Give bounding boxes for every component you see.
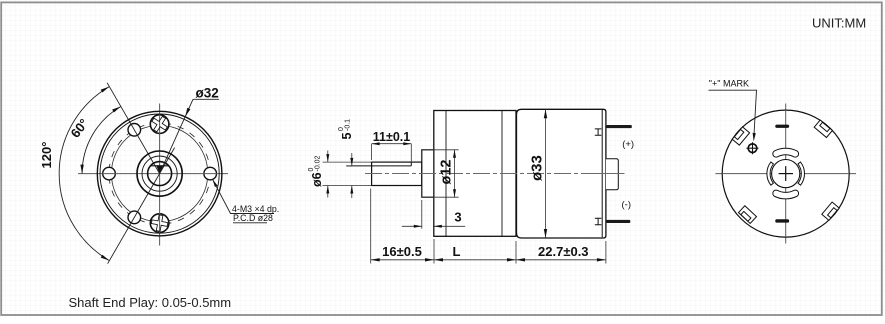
svg-text:ø6: ø6 xyxy=(310,172,324,187)
output shaft (side view, dia 6) xyxy=(372,162,422,185)
svg-text:22.7±0.3: 22.7±0.3 xyxy=(538,244,589,259)
output hub middle circle xyxy=(142,156,177,191)
shaft boss (dia 12) xyxy=(422,150,434,197)
output shaft circle (dia 6) xyxy=(148,162,172,186)
leader line for dia 32 xyxy=(193,98,219,100)
dimension arc 60 deg xyxy=(82,107,121,174)
extension lines for dia 6 xyxy=(323,161,372,163)
svg-text:5: 5 xyxy=(340,133,354,140)
extension lines for dia 12 xyxy=(422,149,459,151)
bottom phillips screw recess xyxy=(150,214,169,233)
gearbox cover seam line xyxy=(445,111,447,237)
radial line through upper-left hole (120 deg) xyxy=(107,83,160,174)
motor can rear circle (dia 33) xyxy=(722,110,849,237)
shaft flat edge line xyxy=(346,165,411,167)
rear view vertical centerline inside xyxy=(785,110,787,237)
dimension 5 0/-0.1 xyxy=(351,153,353,166)
extension lines for bottom dimension chain xyxy=(370,189,372,264)
mounting hole M3 left xyxy=(103,167,116,180)
gearbox front view: horizontal centerline xyxy=(78,173,228,175)
motor assembly centerline xyxy=(365,173,623,175)
motor rear view: horizontal centerline xyxy=(715,173,856,175)
bearing boss arc right xyxy=(798,162,805,185)
can crimp tab upper-right xyxy=(814,120,832,137)
svg-text:UNIT:MM: UNIT:MM xyxy=(812,16,866,31)
shaft flat end step xyxy=(410,162,412,166)
rear bearing circle xyxy=(772,160,800,188)
svg-text:(-): (-) xyxy=(622,199,632,210)
extension line for flat height 5 xyxy=(346,165,352,167)
plus polarity mark xyxy=(748,144,757,153)
svg-text:ø33: ø33 xyxy=(529,155,546,181)
gearbox housing outer circle (dia 32) xyxy=(97,111,222,236)
top phillips screw recess xyxy=(149,113,171,135)
can crimp tab upper-left xyxy=(732,127,749,145)
svg-text:ø12: ø12 xyxy=(439,160,455,185)
mounting hole M3 right xyxy=(204,167,217,180)
gearbox housing inner rim circle xyxy=(100,114,219,233)
svg-text:-0.02: -0.02 xyxy=(314,155,321,171)
bottom phillips screw circle xyxy=(150,214,169,233)
bolt circle P.C.D 28 (dashed) xyxy=(109,123,210,224)
gearbox front view: vertical centerline xyxy=(159,104,161,246)
dimension dia 33 xyxy=(545,109,547,238)
vent slot curved top xyxy=(776,152,795,154)
extension lines for 11 xyxy=(371,144,373,160)
vent slot curved bottom xyxy=(776,193,795,195)
shaft flat chord xyxy=(151,165,169,167)
terminal base bracket (-) xyxy=(595,218,602,224)
dimension 3 xyxy=(402,225,422,227)
gearbox body (side view) xyxy=(434,111,516,237)
motor terminal tab (+) xyxy=(606,125,632,128)
dimension arc 120 deg xyxy=(59,87,109,261)
extension line for 3 xyxy=(421,200,423,229)
svg-text:ø32: ø32 xyxy=(196,86,219,101)
svg-text:"+" MARK: "+" MARK xyxy=(709,79,749,89)
leader line for 4-M3 holes xyxy=(213,180,274,214)
dimension 16 +-0.5 xyxy=(371,259,434,261)
svg-text:-0.1: -0.1 xyxy=(345,119,352,131)
svg-text:L: L xyxy=(453,244,461,259)
can crimp tab lower-right xyxy=(822,202,839,220)
dimension dia 6 0/-0.02 xyxy=(327,151,329,163)
can crimp tab lower-left xyxy=(738,206,756,224)
motor terminal tab (-) xyxy=(606,220,630,223)
svg-text:16±0.5: 16±0.5 xyxy=(382,244,422,259)
dimension 22.7 +-0.3 xyxy=(516,259,606,261)
dimension 11 +-0.1 xyxy=(372,143,412,145)
svg-text:P.C.D ø28: P.C.D ø28 xyxy=(233,213,273,223)
motor rear view: vertical centerline xyxy=(785,104,787,244)
dimension dia 12 xyxy=(454,150,456,197)
svg-text:Shaft End Play: 0.05-0.5mm: Shaft End Play: 0.05-0.5mm xyxy=(69,295,232,310)
leader line for plus mark xyxy=(709,90,757,135)
motor can body (side view) xyxy=(517,109,606,238)
case feature circle xyxy=(111,125,207,221)
motor rear bearing boss xyxy=(606,159,618,190)
mounting hole M3 upper-left xyxy=(128,124,141,137)
rear view horizontal centerline inside xyxy=(722,173,849,175)
vent slot bar top xyxy=(775,125,789,128)
svg-text:120°: 120° xyxy=(39,142,54,169)
radial line through lower-left hole (240 deg) xyxy=(108,148,175,264)
top phillips screw circle xyxy=(150,115,169,134)
bearing boss arc left xyxy=(767,162,774,185)
centerline tick through bearing boss xyxy=(598,173,625,175)
terminal base bracket (+) xyxy=(595,129,602,135)
svg-text:3: 3 xyxy=(454,210,461,225)
svg-text:60°: 60° xyxy=(67,116,91,141)
vent slot bar bottom xyxy=(775,219,789,222)
dimension L xyxy=(434,259,516,261)
arrowhead pointing at shaft center xyxy=(156,165,163,173)
svg-text:(+): (+) xyxy=(622,139,634,150)
svg-text:11±0.1: 11±0.1 xyxy=(373,130,410,144)
motor endcap seam line xyxy=(601,110,603,237)
bearing center cross xyxy=(779,173,793,175)
output hub outer circle xyxy=(137,151,182,196)
mounting hole M3 lower-left xyxy=(128,211,141,224)
gearbox rear seam line xyxy=(501,111,503,237)
